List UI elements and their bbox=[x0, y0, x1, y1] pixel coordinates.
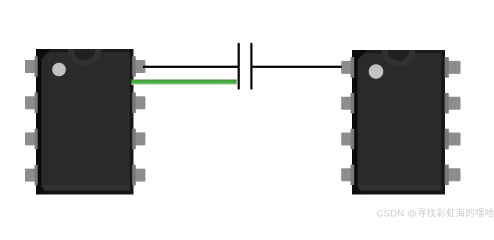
pin 4 (U1 left, bottom) bbox=[25, 165, 38, 186]
pin 8 (U2 right, top) bbox=[445, 57, 461, 78]
U1 pin-1 dot bbox=[52, 63, 66, 77]
U2 notch (pin-1 end indicator) bbox=[382, 50, 416, 67]
pin 4 (U2 left, bottom) bbox=[341, 165, 354, 186]
pin 7 (U2 right) bbox=[445, 93, 461, 114]
pin 3 (U2 left) bbox=[341, 129, 354, 150]
U2 pin-1 dot bbox=[369, 64, 384, 79]
C1 left plate bbox=[238, 43, 240, 90]
pin 6 (U2 right) bbox=[445, 129, 461, 150]
U1 body bbox=[36, 49, 133, 195]
pin 1 (U2 left, top) bbox=[341, 57, 354, 78]
capacitor C1 bbox=[238, 43, 253, 90]
pin 8 (U1 right, top) bbox=[132, 56, 145, 77]
IC U1 (left DIP-8 package) bbox=[25, 49, 145, 195]
pin 3 (U1 left) bbox=[25, 129, 38, 150]
pin 5 (U2 right, bottom) bbox=[445, 165, 461, 186]
U2 body bbox=[352, 50, 445, 195]
wire: green net from U1 right edge toward C1 bbox=[131, 79, 236, 84]
pin 5 (U1 right, bottom) bbox=[132, 165, 145, 186]
wire: U1 pin 8 to capacitor C1 left plate (black) bbox=[143, 66, 239, 68]
pin 2 (U2 left) bbox=[341, 93, 354, 114]
U1 notch (pin-1 end indicator) bbox=[68, 49, 102, 66]
pin 7 (U1 right) bbox=[132, 92, 145, 113]
svg-text:CSDN @寻找彩虹海的嘿哈: CSDN @寻找彩虹海的嘿哈 bbox=[377, 207, 494, 218]
wire: capacitor C1 right plate to U2 pin 1 (black) bbox=[252, 66, 342, 68]
IC U2 (right DIP-8 package) bbox=[341, 50, 460, 195]
pin 1 (U1 left, top) bbox=[25, 56, 38, 77]
C1 right plate bbox=[250, 43, 252, 90]
pin 2 (U1 left) bbox=[25, 92, 38, 113]
pin 6 (U1 right) bbox=[132, 129, 145, 150]
